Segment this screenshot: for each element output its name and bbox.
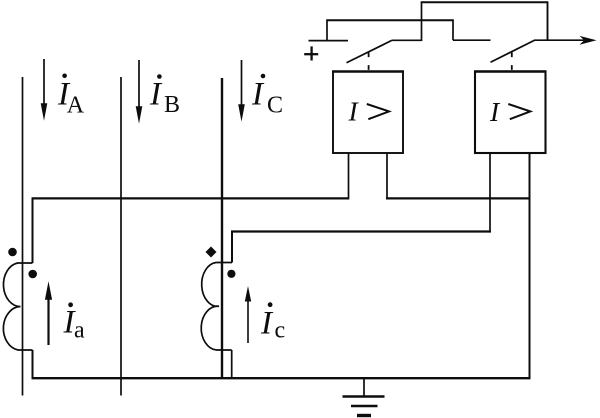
svg-text:I: I xyxy=(489,96,501,127)
svg-text:I: I xyxy=(251,77,265,113)
svg-text:I: I xyxy=(149,77,163,113)
svg-text:A: A xyxy=(67,93,85,119)
svg-text:B: B xyxy=(164,92,180,118)
svg-text:C: C xyxy=(267,92,283,118)
svg-text:I: I xyxy=(348,95,360,126)
svg-text:c: c xyxy=(275,317,286,343)
svg-text:a: a xyxy=(74,318,85,344)
svg-text:I: I xyxy=(260,305,274,341)
